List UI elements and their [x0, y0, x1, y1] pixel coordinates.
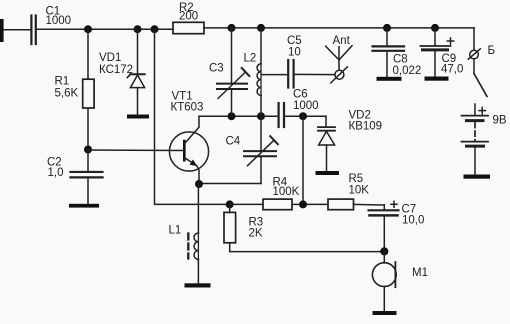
- svg-text:L2: L2: [244, 52, 257, 64]
- wire: rail to C3: [231, 28, 233, 83]
- junction: R3 top: [226, 200, 234, 208]
- wire: supply rail down to lower rail: [155, 29, 230, 204]
- label C9 47,0: [441, 53, 463, 76]
- transistor VT1: [169, 116, 208, 184]
- svg-text:C3: C3: [209, 63, 224, 75]
- wire: C6 coupling: [285, 115, 326, 117]
- capacitor C7 (electrolytic): [369, 201, 399, 251]
- label M1: [412, 267, 428, 279]
- capacitor C6: [279, 103, 284, 127]
- svg-text:1,0: 1,0: [48, 167, 64, 179]
- junction: L2 bottom / C4 top: [257, 112, 265, 120]
- label VD2 KB109: [349, 109, 383, 132]
- junction: C3 top: [228, 24, 236, 32]
- junction: microphone node: [380, 247, 388, 255]
- ground (VD2): [316, 171, 340, 175]
- label R5 10K: [349, 173, 370, 196]
- wire: R5 to C7: [354, 203, 385, 206]
- ground (L1): [185, 283, 211, 287]
- ground (battery): [464, 175, 491, 179]
- svg-text:VD1: VD1: [99, 52, 121, 64]
- svg-text:M1: M1: [412, 267, 428, 279]
- label C4: [226, 135, 241, 147]
- svg-text:C6: C6: [293, 88, 308, 100]
- junction: C3 bottom: [228, 112, 236, 120]
- resistor R4: [263, 199, 292, 210]
- wire: C1 to R2 (top rail left): [37, 28, 173, 30]
- svg-text:1000: 1000: [293, 100, 319, 112]
- svg-text:9В: 9В: [493, 114, 507, 126]
- label R4 100K: [273, 176, 300, 198]
- input terminal: [0, 19, 4, 42]
- label R2 200: [179, 2, 198, 23]
- svg-text:1000: 1000: [46, 15, 72, 27]
- junction: supply drop node: [151, 25, 159, 33]
- svg-text:C4: C4: [226, 135, 241, 147]
- wire: emitter to C4 bottom: [199, 183, 261, 185]
- svg-text:2K: 2K: [249, 227, 263, 239]
- svg-text:КС172: КС172: [99, 64, 133, 76]
- wire: rail to C9: [434, 28, 436, 45]
- junction: varicap bias node: [299, 200, 307, 208]
- ground (M1): [373, 311, 397, 315]
- resistor R1: [83, 79, 94, 108]
- svg-text:R5: R5: [349, 173, 364, 185]
- wire: node down to lower rail: [302, 116, 304, 204]
- capacitor C8: [373, 46, 405, 76]
- resistor R5: [328, 199, 354, 210]
- label C6 1000: [293, 88, 319, 112]
- svg-text:10: 10: [288, 47, 301, 59]
- wire: R3 top stub: [229, 204, 231, 212]
- resistor R2: [173, 22, 204, 33]
- wire: emitter down to L1: [197, 184, 199, 233]
- label C7 10,0: [402, 203, 425, 226]
- svg-text:0,022: 0,022: [393, 65, 422, 77]
- svg-text:C5: C5: [287, 35, 302, 47]
- junction: L2 top: [257, 24, 265, 32]
- svg-text:Б: Б: [488, 45, 496, 57]
- capacitor C5: [288, 60, 293, 88]
- wire: rail to R1: [87, 29, 89, 79]
- svg-text:КТ603: КТ603: [171, 101, 204, 113]
- label C2 1,0: [47, 156, 64, 179]
- svg-text:5,6K: 5,6K: [55, 87, 79, 99]
- wire: rail to L2: [260, 28, 262, 64]
- label R3 2K: [249, 216, 264, 239]
- resistor R3: [224, 212, 236, 242]
- wire: collector rail: [199, 115, 278, 117]
- wire: rail corner to switch: [473, 28, 475, 50]
- wire: lower rail to R4: [230, 203, 263, 205]
- wire: R3 to microphone node: [230, 243, 385, 252]
- junction: base node: [84, 146, 92, 154]
- capacitor C2: [71, 172, 103, 178]
- svg-text:10K: 10K: [349, 184, 370, 196]
- label L1: [169, 224, 182, 236]
- wire: base node to VT1 base: [88, 149, 183, 152]
- ground (C2): [69, 204, 99, 208]
- label VD1 KC172: [99, 52, 133, 76]
- label C8 0,022: [393, 53, 422, 77]
- svg-text:КВ109: КВ109: [349, 120, 383, 132]
- wire: R2 to switch corner (top rail right): [204, 27, 474, 29]
- label C1 1000: [46, 5, 72, 27]
- antenna Ant: [326, 46, 352, 83]
- wire: base node to C2: [87, 150, 89, 173]
- svg-text:100K: 100K: [273, 186, 300, 198]
- inductor L2: [257, 64, 261, 116]
- switch terminal B: [468, 49, 487, 97]
- trimmer capacitor C3: [217, 68, 249, 116]
- junction: emitter node: [195, 180, 203, 188]
- wire: C2 to ground: [87, 179, 89, 204]
- junction: C8 top: [383, 24, 391, 32]
- zener diode VD1: [127, 74, 144, 114]
- label B: [488, 45, 496, 57]
- svg-text:C8: C8: [393, 53, 408, 65]
- wire: rail to C8: [386, 28, 388, 45]
- microphone M1: [372, 251, 396, 311]
- svg-text:10,0: 10,0: [402, 214, 424, 226]
- ground (C9): [425, 77, 449, 81]
- label Ant: [333, 35, 351, 47]
- capacitor C9 (electrolytic): [421, 38, 454, 77]
- label VT1 KT603: [171, 90, 204, 113]
- wire: L2 tap to C5: [262, 74, 289, 76]
- wire: C5 to antenna jack: [295, 73, 335, 75]
- wire: R1 to base node: [87, 109, 89, 150]
- junction: C1/R1 node: [84, 25, 92, 33]
- svg-text:L1: L1: [169, 224, 182, 236]
- label C5 10: [287, 35, 302, 59]
- wire: input to C1: [4, 29, 31, 31]
- varicap diode VD2: [318, 116, 335, 171]
- capacitor C1: [31, 16, 35, 45]
- label C3: [209, 63, 224, 75]
- label R1 5,6K: [55, 75, 79, 99]
- trimmer capacitor C4: [244, 116, 278, 183]
- svg-text:R1: R1: [55, 75, 70, 87]
- wire: R4 to node: [292, 203, 328, 205]
- svg-text:47,0: 47,0: [441, 64, 463, 76]
- battery GB1 9V: [462, 104, 489, 175]
- label L2: [244, 52, 257, 64]
- wire: rail to VD1: [137, 29, 139, 74]
- ground (VD1): [127, 115, 149, 119]
- inductor L1: [188, 233, 198, 283]
- junction: VD1 node: [134, 25, 142, 33]
- junction: C9 top: [431, 24, 439, 32]
- ground (C8): [377, 77, 402, 81]
- junction: C6/VD2/R4R5 node: [299, 112, 307, 120]
- svg-text:200: 200: [179, 10, 198, 22]
- svg-text:Ant: Ant: [333, 35, 351, 47]
- label 9V: [493, 114, 507, 126]
